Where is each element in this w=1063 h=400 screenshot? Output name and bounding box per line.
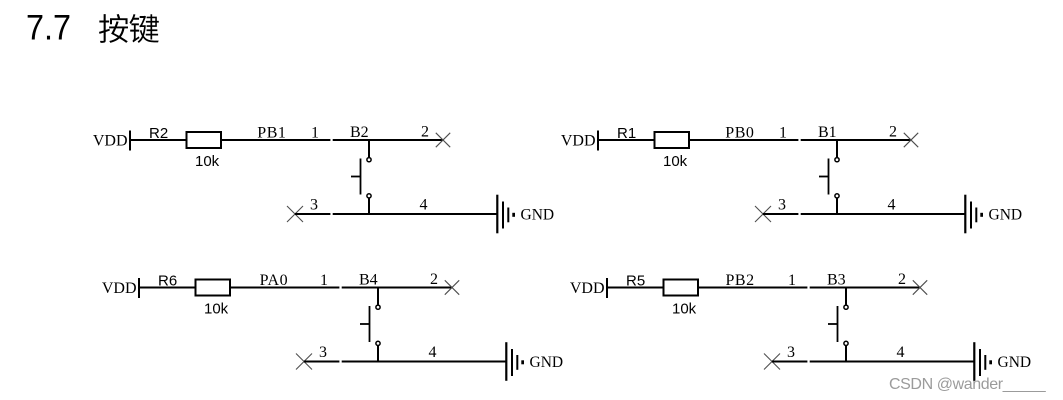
- resistor R5 body: [664, 280, 699, 296]
- svg-text:VDD: VDD: [93, 133, 128, 150]
- svg-text:VDD: VDD: [570, 280, 605, 297]
- no-connect cross at B1 pin 2: [904, 133, 918, 147]
- svg-text:B3: B3: [827, 272, 846, 289]
- no-connect cross at B4 pin 3: [296, 354, 312, 370]
- wire R5 to B3 pin 1, net PB2: [698, 287, 807, 289]
- svg-text:2: 2: [898, 271, 906, 288]
- wire B4 pin 3 segment: [304, 361, 339, 363]
- no-connect cross at B2 pin 3: [287, 206, 303, 222]
- ground symbol GND (circuit 2): [965, 195, 983, 234]
- wire B1 pin 2 to no-connect: [837, 139, 911, 141]
- svg-text:VDD: VDD: [561, 133, 596, 150]
- svg-text:4: 4: [429, 344, 437, 361]
- wire segment pin 1 stub: [810, 287, 846, 289]
- svg-text:10k: 10k: [663, 153, 688, 170]
- no-connect cross at B1 pin 3: [755, 206, 771, 222]
- svg-text:B2: B2: [350, 124, 369, 141]
- push button B3 switch symbol: [828, 287, 848, 363]
- power port VDD (circuit 2): [561, 131, 598, 151]
- wire B4 pin 4 to GND: [342, 361, 507, 363]
- svg-text:4: 4: [888, 197, 896, 214]
- resistor R1 body: [655, 132, 690, 148]
- svg-text:PB2: PB2: [726, 272, 755, 289]
- wire VDD to R2: [130, 139, 187, 141]
- svg-text:GND: GND: [530, 354, 564, 371]
- no-connect cross at B3 pin 3: [764, 354, 780, 370]
- svg-text:3: 3: [778, 197, 786, 214]
- svg-text:GND: GND: [521, 207, 555, 224]
- svg-text:PA0: PA0: [260, 272, 288, 289]
- heading text 键 (drawn glyph): [129, 14, 158, 43]
- push button B2 switch symbol: [351, 139, 371, 215]
- heading text 按 (drawn glyph): [99, 14, 128, 43]
- no-connect cross at B4 pin 2: [445, 280, 459, 294]
- power port VDD (circuit 1): [93, 131, 130, 151]
- svg-text:3: 3: [787, 344, 795, 361]
- ground symbol GND (circuit 1): [497, 195, 515, 234]
- svg-text:PB0: PB0: [725, 125, 754, 142]
- svg-text:1: 1: [311, 125, 319, 142]
- wire B1 pin 3 segment: [763, 213, 798, 215]
- resistor R6 body: [196, 280, 231, 296]
- push button B1 switch symbol: [819, 139, 839, 215]
- svg-text:10k: 10k: [672, 301, 697, 318]
- svg-text:1: 1: [779, 125, 787, 142]
- wire VDD to R1: [598, 139, 655, 141]
- svg-text:R2: R2: [149, 125, 168, 142]
- svg-text:GND: GND: [989, 207, 1023, 224]
- svg-text:B1: B1: [818, 124, 837, 141]
- svg-text:CSDN @wander_____: CSDN @wander_____: [889, 376, 1047, 393]
- wire B2 pin 4 to GND: [333, 213, 498, 215]
- svg-text:10k: 10k: [195, 153, 220, 170]
- svg-text:10k: 10k: [204, 301, 229, 318]
- wire VDD to R6: [139, 287, 196, 289]
- wire B2 pin 3 segment: [295, 213, 330, 215]
- wire B3 pin 3 segment: [772, 361, 807, 363]
- resistor R2 body: [187, 132, 222, 148]
- svg-text:1: 1: [320, 272, 328, 289]
- wire R6 to B4 pin 1, net PA0: [230, 287, 339, 289]
- power port VDD (circuit 4): [570, 278, 607, 298]
- no-connect cross at B2 pin 2: [436, 133, 450, 147]
- svg-text:R1: R1: [617, 125, 636, 142]
- svg-text:7.7: 7.7: [26, 9, 71, 48]
- power port VDD (circuit 3): [102, 278, 139, 298]
- wire B1 pin 4 to GND: [801, 213, 966, 215]
- svg-text:1: 1: [788, 272, 796, 289]
- wire segment pin 1 stub: [801, 139, 837, 141]
- ground symbol GND (circuit 3): [506, 342, 524, 381]
- wire segment pin 1 stub: [333, 139, 369, 141]
- svg-text:3: 3: [319, 344, 327, 361]
- svg-text:R5: R5: [626, 273, 645, 290]
- wire B2 pin 2 to no-connect: [369, 139, 443, 141]
- svg-text:4: 4: [897, 344, 905, 361]
- svg-text:2: 2: [421, 124, 429, 141]
- wire VDD to R5: [607, 287, 664, 289]
- wire B3 pin 2 to no-connect: [846, 287, 920, 289]
- svg-text:VDD: VDD: [102, 280, 137, 297]
- svg-text:R6: R6: [158, 273, 177, 290]
- svg-text:2: 2: [889, 124, 897, 141]
- svg-text:PB1: PB1: [257, 125, 286, 142]
- wire B3 pin 4 to GND: [810, 361, 975, 363]
- svg-text:B4: B4: [359, 272, 378, 289]
- no-connect cross at B3 pin 2: [913, 280, 927, 294]
- wire R2 to B2 pin 1, net PB1: [221, 139, 330, 141]
- wire segment pin 1 stub: [342, 287, 378, 289]
- push button B4 switch symbol: [360, 287, 380, 363]
- svg-text:2: 2: [430, 271, 438, 288]
- wire B4 pin 2 to no-connect: [378, 287, 452, 289]
- svg-text:4: 4: [420, 197, 428, 214]
- ground symbol GND (circuit 4): [974, 342, 992, 381]
- wire R1 to B1 pin 1, net PB0: [689, 139, 798, 141]
- svg-text:GND: GND: [998, 354, 1032, 371]
- svg-text:3: 3: [310, 197, 318, 214]
